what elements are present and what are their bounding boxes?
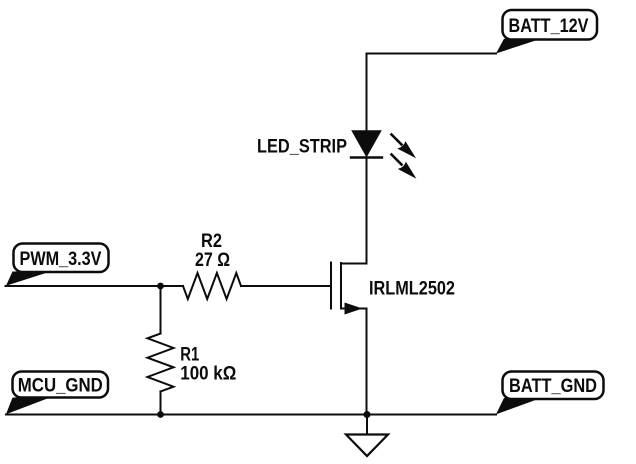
- wire LED cathode to MOSFET drain: [366, 158, 368, 264]
- net flag BATT_GND: [496, 372, 604, 415]
- wire PWM_3.3V to R2: [6, 285, 184, 287]
- svg-text:PWM_3.3V: PWM_3.3V: [20, 249, 102, 270]
- svg-text:100 kΩ: 100 kΩ: [180, 364, 236, 385]
- wire junction to R1: [160, 286, 162, 334]
- transistor Q1 gate bar: [330, 263, 332, 309]
- svg-text:27 Ω: 27 Ω: [195, 250, 230, 271]
- svg-text:BATT_GND: BATT_GND: [509, 376, 597, 397]
- wire MOSFET source to rail: [366, 309, 368, 415]
- transistor Q1 source lead: [341, 308, 367, 310]
- LED light arrow 1: [392, 135, 417, 159]
- junction dot R1/rail: [157, 411, 164, 418]
- net flag MCU_GND: [6, 372, 108, 415]
- svg-text:BATT_12V: BATT_12V: [509, 16, 589, 37]
- junction node gate/R1: [157, 283, 164, 290]
- wire BATT_12V to LED anode: [367, 54, 497, 133]
- ground rail wire: [6, 414, 496, 416]
- junction dot source/rail: [364, 411, 371, 418]
- wire R1 to ground rail: [160, 392, 162, 415]
- svg-text:LED_STRIP: LED_STRIP: [257, 136, 347, 157]
- ground symbol: [346, 415, 388, 457]
- LED D1 triangle (anode): [353, 131, 381, 156]
- svg-text:MCU_GND: MCU_GND: [18, 375, 103, 396]
- net flag PWM_3.3V: [6, 244, 109, 286]
- transistor Q1 drain lead: [341, 263, 367, 265]
- resistor R2 zigzag: [183, 273, 241, 299]
- resistor R1 zigzag: [148, 334, 174, 392]
- transistor Q1 source arrow: [345, 303, 363, 315]
- LED D1 cathode bar: [351, 156, 382, 158]
- wire R2 to gate: [241, 285, 331, 287]
- net flag BATT_12V: [496, 10, 597, 54]
- svg-text:R2: R2: [201, 231, 222, 252]
- svg-text:R1: R1: [180, 344, 199, 365]
- transistor Q1 channel bar: [340, 263, 342, 309]
- svg-text:IRLML2502: IRLML2502: [369, 278, 455, 299]
- LED light arrow 2: [392, 155, 417, 179]
